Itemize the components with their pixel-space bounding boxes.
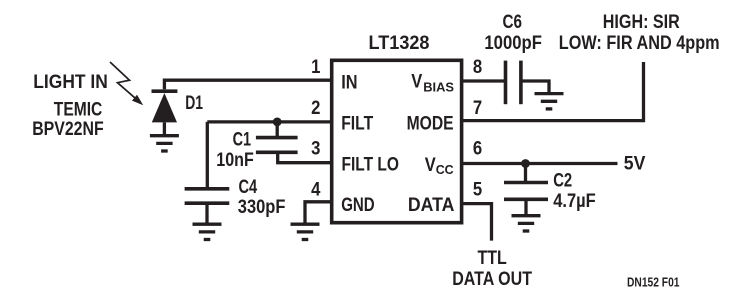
- svg-text:330pF: 330pF: [238, 196, 286, 218]
- node FILT junction dot: [273, 118, 282, 127]
- ground (pin 4): [291, 224, 320, 239]
- capacitor C1: [256, 138, 298, 153]
- svg-text:1000pF: 1000pF: [484, 32, 542, 54]
- svg-text:5V: 5V: [624, 153, 646, 175]
- svg-text:MODE: MODE: [407, 113, 454, 135]
- capacitor C4: [185, 189, 230, 223]
- capacitor C2: [504, 183, 548, 215]
- svg-text:BIAS: BIAS: [423, 80, 454, 95]
- wire: FILT net (pin 2): [207, 120, 331, 123]
- op-amp U1 LT1328 IC body: [332, 60, 462, 222]
- svg-text:FILT: FILT: [341, 113, 373, 135]
- wire: pin 5 DATA out: [462, 204, 492, 241]
- ground (C6): [535, 94, 564, 109]
- wire: dot to C1 top: [276, 122, 279, 136]
- svg-text:DATA OUT: DATA OUT: [452, 268, 532, 290]
- node VCC junction dot: [521, 159, 530, 168]
- ground (under D1): [150, 136, 179, 151]
- wire: dot to C2: [524, 164, 527, 182]
- light-in arrow: [110, 62, 143, 105]
- svg-text:LOW: FIR AND 4ppm: LOW: FIR AND 4ppm: [559, 32, 720, 54]
- svg-text:C1: C1: [233, 129, 252, 151]
- wire: pin 4 GND: [305, 202, 332, 223]
- wire: pin 8 VBIAS to C6: [462, 79, 505, 82]
- wire: FILT net down to C4: [206, 122, 209, 187]
- svg-text:V: V: [425, 154, 436, 176]
- svg-text:8: 8: [473, 56, 482, 78]
- svg-text:HIGH: SIR: HIGH: SIR: [603, 11, 680, 33]
- wire: pin 7 MODE: [462, 62, 644, 121]
- photodiode D1: [152, 91, 178, 134]
- svg-text:7: 7: [473, 97, 482, 119]
- wire: IN net (diode to pin 1): [164, 80, 331, 89]
- svg-text:BPV22NF: BPV22NF: [32, 118, 104, 140]
- svg-text:IN: IN: [341, 71, 357, 93]
- svg-text:FILT LO: FILT LO: [342, 154, 400, 176]
- svg-text:6: 6: [473, 138, 482, 160]
- svg-text:C6: C6: [503, 11, 523, 33]
- svg-text:D1: D1: [185, 92, 203, 114]
- svg-text:10nF: 10nF: [216, 149, 254, 171]
- svg-text:DN152 F01: DN152 F01: [627, 275, 680, 290]
- svg-text:4: 4: [311, 178, 320, 200]
- ground (under C4): [193, 224, 222, 239]
- svg-text:LIGHT IN: LIGHT IN: [33, 71, 108, 93]
- wire: pin 6 VCC to 5V: [462, 162, 618, 165]
- svg-text:C2: C2: [553, 169, 572, 191]
- svg-text:TTL: TTL: [478, 247, 507, 269]
- svg-text:C4: C4: [239, 176, 258, 198]
- svg-text:GND: GND: [341, 194, 375, 216]
- wire: C1 bottom to pin 3 (FILT LO): [278, 152, 332, 162]
- svg-text:3: 3: [311, 138, 320, 160]
- svg-text:4.7µF: 4.7µF: [553, 190, 596, 212]
- svg-text:V: V: [411, 71, 422, 93]
- svg-text:CC: CC: [436, 162, 455, 177]
- pin label VCC: [425, 154, 455, 177]
- svg-text:2: 2: [311, 97, 320, 119]
- svg-text:1: 1: [311, 56, 320, 78]
- svg-text:LT1328: LT1328: [369, 32, 430, 54]
- svg-text:5: 5: [473, 178, 482, 200]
- pin label VBIAS: [411, 71, 454, 95]
- svg-text:DATA: DATA: [408, 194, 455, 216]
- capacitor C6: [506, 61, 550, 105]
- ground (C2): [512, 216, 541, 231]
